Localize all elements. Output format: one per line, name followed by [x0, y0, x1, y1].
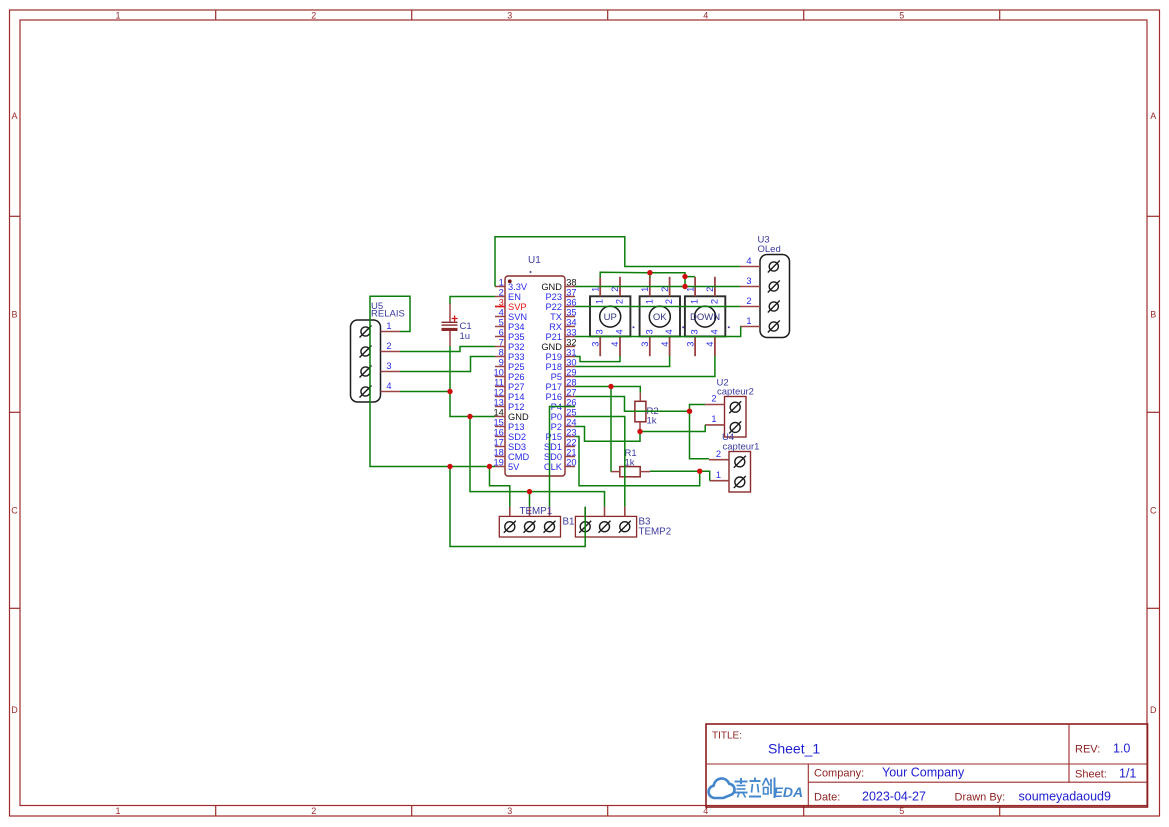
svg-text:4: 4	[386, 381, 391, 391]
svg-text:REV:: REV:	[1075, 744, 1100, 756]
wire net EN: U1 pin2 to C1 top	[450, 297, 495, 304]
svg-text:CLK: CLK	[544, 462, 563, 472]
row tick marks	[10, 216, 1160, 608]
wire net P22: U1 pin36 to U3 pin2	[575, 306, 740, 308]
svg-text:2: 2	[386, 341, 391, 351]
IC U1 body	[505, 276, 565, 476]
svg-text:GND: GND	[508, 412, 529, 422]
svg-text:2: 2	[610, 287, 620, 292]
wire branch P16 to U4 pin2	[690, 411, 710, 459]
svg-text:P21: P21	[545, 332, 562, 342]
svg-text:1: 1	[746, 316, 751, 326]
svg-text:TITLE:: TITLE:	[712, 731, 742, 742]
IC U1 pin-1 marker dot	[508, 279, 512, 283]
resistor R2 body	[635, 401, 646, 422]
wire branch P17 to R1 left	[610, 387, 612, 472]
svg-text:SD1: SD1	[544, 442, 562, 452]
svg-text:soumeyadaoud9: soumeyadaoud9	[1019, 790, 1111, 804]
svg-text:3: 3	[640, 342, 650, 347]
capacitor C1 plates	[442, 322, 458, 331]
wire net P2: U1 pin24 to R2 bottom	[575, 427, 640, 442]
svg-text:19: 19	[493, 457, 503, 467]
terminal block B3 body	[575, 516, 636, 537]
wire net P21: U1 pin33 to U3 pin1	[575, 327, 741, 337]
connector U3 body	[760, 255, 790, 338]
wire net P0: U1 pin25 to B3 pin3	[575, 417, 625, 507]
svg-text:2: 2	[705, 287, 715, 292]
svg-text:4: 4	[499, 307, 504, 317]
row labels left A-D	[11, 111, 18, 715]
push button DOWN pin stubs	[695, 277, 715, 356]
svg-text:P13: P13	[508, 422, 525, 432]
svg-text:5: 5	[499, 317, 504, 327]
svg-text:30: 30	[566, 357, 576, 367]
connector U5 pin numbers	[386, 321, 391, 391]
push button OK pin stubs	[650, 277, 670, 356]
svg-text:2: 2	[709, 299, 719, 304]
svg-text:P27: P27	[508, 382, 525, 392]
svg-text:B1: B1	[563, 517, 575, 528]
svg-text:P14: P14	[508, 392, 525, 402]
connector U3 pin numbers	[746, 256, 751, 326]
wire net P4: U1 pin26 to B1 pin3	[550, 407, 576, 507]
svg-text:14: 14	[493, 407, 503, 417]
svg-text:B: B	[1150, 310, 1156, 320]
push button UP pin stubs	[600, 277, 620, 356]
U1 left pin numbers and names	[493, 277, 529, 472]
push button UP pin names inside	[595, 299, 625, 335]
U1 right pin numbers and names	[541, 277, 576, 472]
push button UP body	[590, 296, 630, 336]
wire net P19: U1 pin31 to UP pin4	[575, 356, 620, 362]
wire net P5: U1 pin29 to DOWN pin4	[575, 356, 715, 377]
svg-text:1: 1	[499, 277, 504, 287]
svg-text:29: 29	[566, 367, 576, 377]
wire branch P16 to U2 pin2	[690, 405, 706, 412]
svg-text:2: 2	[664, 299, 674, 304]
svg-text:27: 27	[566, 387, 576, 397]
connector U4 pin numbers	[716, 449, 721, 480]
svg-text:1: 1	[644, 299, 654, 304]
title block outer border	[706, 724, 1148, 807]
svg-text:3.3V: 3.3V	[508, 282, 528, 292]
svg-text:2: 2	[716, 449, 721, 459]
svg-text:EN: EN	[508, 292, 521, 302]
svg-text:31: 31	[566, 347, 576, 357]
wire net P18: U1 pin30 to OK pin4	[575, 356, 670, 367]
IC U1 pin 3 red stub (SVP)	[495, 306, 505, 308]
push button OK pin numbers outside	[640, 287, 670, 347]
wire branch 5V to B1 pin1	[490, 467, 510, 507]
wire net P16: U1 pin27 to junction	[575, 397, 690, 412]
svg-text:3: 3	[644, 329, 654, 334]
svg-text:UP: UP	[604, 312, 617, 323]
svg-text:17: 17	[493, 437, 503, 447]
svg-text:P25: P25	[508, 362, 525, 372]
svg-text:SVP: SVP	[508, 302, 527, 312]
svg-text:24: 24	[566, 417, 576, 427]
svg-text:SD2: SD2	[508, 432, 526, 442]
column labels top 1-5	[115, 10, 904, 20]
svg-text:1: 1	[711, 414, 716, 424]
svg-text:1: 1	[716, 470, 721, 480]
svg-text:2: 2	[311, 10, 316, 20]
svg-text:25: 25	[566, 407, 576, 417]
svg-text:P15: P15	[545, 432, 562, 442]
svg-text:capteur2: capteur2	[717, 387, 754, 398]
svg-text:3: 3	[595, 329, 605, 334]
svg-text:CMD: CMD	[508, 452, 529, 462]
svg-text:4: 4	[660, 342, 670, 347]
svg-text:P26: P26	[508, 372, 525, 382]
svg-text:P0: P0	[551, 412, 562, 422]
svg-text:SD0: SD0	[544, 452, 562, 462]
svg-text:1k: 1k	[625, 457, 635, 468]
svg-text:2: 2	[615, 299, 625, 304]
svg-text:P23: P23	[545, 292, 562, 302]
svg-text:EDA: EDA	[774, 784, 804, 800]
svg-text:DOWN: DOWN	[690, 312, 720, 323]
svg-text:1u: 1u	[460, 331, 471, 342]
svg-text:28: 28	[566, 377, 576, 387]
wire branch buttons common to GND38	[685, 277, 695, 287]
svg-text:4: 4	[615, 329, 625, 334]
wire OK pin1 drop	[649, 273, 651, 278]
svg-text:A: A	[11, 111, 17, 121]
row labels right A-D	[1150, 111, 1157, 715]
svg-text:P17: P17	[545, 382, 562, 392]
svg-text:Your Company: Your Company	[882, 766, 965, 780]
svg-text:P35: P35	[508, 332, 525, 342]
svg-text:P5: P5	[551, 372, 562, 382]
svg-text:36: 36	[566, 297, 576, 307]
title block divider vertical logo	[807, 764, 809, 807]
connector U4 screw terminals	[734, 456, 746, 488]
svg-text:3: 3	[690, 329, 700, 334]
push button OK body	[640, 296, 680, 336]
svg-text:OLed: OLed	[758, 244, 781, 255]
svg-text:D: D	[1150, 705, 1157, 715]
svg-text:2023-04-27: 2023-04-27	[862, 790, 926, 804]
wire net GND38: U1 pin38 to U3 pin3	[575, 286, 740, 288]
svg-text:1: 1	[115, 10, 120, 20]
terminal block B1 screw terminals	[504, 521, 556, 533]
svg-text:8: 8	[499, 347, 504, 357]
svg-text:capteur1: capteur1	[723, 441, 760, 452]
svg-text:C: C	[1150, 506, 1157, 516]
svg-text:1: 1	[690, 299, 700, 304]
svg-text:1: 1	[115, 806, 120, 816]
terminal block B1 body	[499, 516, 560, 537]
svg-text:1: 1	[595, 299, 605, 304]
svg-text:P32: P32	[508, 342, 525, 352]
wire branch GND to B1 pin2	[529, 492, 531, 507]
push button UP pin numbers outside	[590, 287, 620, 347]
svg-text:RX: RX	[549, 322, 562, 332]
svg-text:P34: P34	[508, 322, 525, 332]
svg-text:7: 7	[499, 337, 504, 347]
svg-text:SVN: SVN	[508, 312, 527, 322]
svg-text:TEMP1: TEMP1	[520, 506, 553, 517]
svg-text:2: 2	[660, 287, 670, 292]
JLCEDA logo cloud and characters	[709, 778, 775, 799]
connector U2 pin stubs	[705, 405, 725, 425]
svg-text:P22: P22	[545, 302, 562, 312]
capacitor C1 plus sign	[452, 316, 458, 322]
title block divider vertical right	[1068, 724, 1070, 782]
wire branch P2 to U2 pin1	[640, 425, 705, 432]
svg-text:2: 2	[746, 296, 751, 306]
IC U1 pin stubs	[495, 287, 575, 467]
svg-text:1/1: 1/1	[1119, 767, 1136, 781]
svg-text:1.0: 1.0	[1113, 742, 1130, 756]
svg-text:4: 4	[709, 329, 719, 334]
title block divider horizontal 2	[808, 781, 1147, 783]
svg-text:5: 5	[899, 10, 904, 20]
svg-text:33: 33	[566, 327, 576, 337]
svg-text:37: 37	[566, 287, 576, 297]
svg-text:Company:: Company:	[814, 768, 864, 780]
svg-text:4: 4	[703, 10, 708, 20]
svg-text:2: 2	[711, 394, 716, 404]
svg-text:Drawn By:: Drawn By:	[955, 792, 1006, 804]
connector U2 screw terminals	[729, 401, 741, 433]
connector U3 screw terminals	[768, 261, 780, 333]
wire net GND: C1 bottom to U1 pin14	[450, 346, 495, 417]
connector U4 pin stubs	[709, 460, 729, 481]
wire branch GND to U5 pin4	[400, 391, 450, 393]
svg-text:1: 1	[640, 287, 650, 292]
svg-text:20: 20	[566, 457, 576, 467]
wire branch GND down to B3 pin2	[470, 417, 605, 507]
svg-text:11: 11	[494, 377, 504, 387]
push button DOWN pin numbers outside	[685, 287, 715, 347]
svg-text:1: 1	[590, 287, 600, 292]
svg-text:3: 3	[590, 342, 600, 347]
svg-text:21: 21	[566, 447, 576, 457]
svg-text:13: 13	[493, 397, 503, 407]
svg-text:C: C	[11, 506, 18, 516]
wire U5 pin3 to U1 pin8 P33	[400, 357, 495, 372]
svg-text:P16: P16	[545, 392, 562, 402]
push button DOWN circle	[695, 306, 716, 327]
svg-text:1k: 1k	[647, 416, 657, 427]
svg-text:5V: 5V	[508, 462, 520, 472]
column tick marks	[216, 10, 1000, 816]
svg-text:3: 3	[507, 10, 512, 20]
svg-text:P2: P2	[551, 422, 562, 432]
resistor R2 leads	[639, 392, 641, 432]
svg-text:P19: P19	[545, 352, 562, 362]
svg-text:SD3: SD3	[508, 442, 526, 452]
svg-text:16: 16	[493, 427, 503, 437]
svg-text:9: 9	[499, 357, 504, 367]
svg-text:3: 3	[386, 361, 391, 371]
svg-text:RELAIS: RELAIS	[371, 309, 405, 320]
svg-text:2: 2	[311, 806, 316, 816]
svg-text:Sheet_1: Sheet_1	[768, 741, 820, 757]
svg-text:4: 4	[610, 342, 620, 347]
svg-text:3: 3	[507, 806, 512, 816]
svg-text:TEMP2: TEMP2	[639, 526, 672, 537]
svg-text:18: 18	[493, 447, 503, 457]
connector U2 body	[725, 397, 747, 438]
svg-text:U1: U1	[528, 255, 541, 266]
svg-text:4: 4	[705, 342, 715, 347]
terminal block B3 screw terminals	[579, 521, 631, 533]
resistor R1 leads	[611, 471, 650, 473]
svg-text:35: 35	[566, 307, 576, 317]
junction dots	[447, 270, 702, 494]
wire branch 5V to B3 pin1	[450, 467, 585, 547]
svg-text:D: D	[11, 705, 18, 715]
title block divider horizontal 1	[706, 763, 1148, 765]
svg-text:B: B	[11, 310, 17, 320]
svg-text:23: 23	[566, 427, 576, 437]
svg-text:Sheet:: Sheet:	[1075, 769, 1107, 781]
wire net 3.3V: U1 pin1 to U3 pin4	[495, 237, 740, 287]
wire net 5V: U1 pin19 to U5 pin1 loop	[370, 296, 495, 466]
capacitor C1 leads	[449, 303, 451, 346]
svg-text:OK: OK	[653, 312, 667, 323]
connector U5 body	[351, 320, 381, 402]
svg-text:1: 1	[386, 321, 391, 331]
push button DOWN pin names inside	[690, 299, 720, 335]
hidden value dots of buttons	[633, 326, 730, 328]
connector U5 screw terminals	[360, 326, 372, 398]
connector U4 body	[729, 452, 751, 493]
svg-text:6: 6	[499, 327, 504, 337]
svg-text:22: 22	[566, 437, 576, 447]
svg-text:2: 2	[499, 287, 504, 297]
svg-text:TX: TX	[550, 312, 562, 322]
svg-text:32: 32	[566, 337, 576, 347]
terminal block B3 pin stubs	[585, 507, 625, 517]
wire net P15: U1 pin23 to junction	[575, 437, 700, 486]
wire R1 right to U4 pin1	[650, 471, 710, 481]
svg-text:4: 4	[664, 329, 674, 334]
wire buttons pin1 row	[600, 272, 685, 277]
push button OK pin names inside	[644, 299, 674, 335]
svg-text:4: 4	[746, 256, 751, 266]
wire net P17: U1 pin28 to R2 top	[575, 387, 640, 393]
push button UP circle	[600, 306, 621, 327]
svg-text:38: 38	[566, 277, 576, 287]
svg-text:3: 3	[499, 297, 504, 307]
svg-text:P33: P33	[508, 352, 525, 362]
svg-text:P18: P18	[545, 362, 562, 372]
terminal block B1 pin stubs	[510, 507, 550, 517]
wire U5 pin2 to U1 pin7 P32	[400, 347, 495, 352]
svg-text:P12: P12	[508, 402, 525, 412]
column labels bottom 1-5	[115, 806, 904, 816]
U1 hidden value dot	[530, 271, 532, 273]
svg-text:GND: GND	[541, 342, 562, 352]
connector U5 pin stubs	[381, 332, 401, 392]
svg-text:A: A	[1150, 111, 1156, 121]
svg-text:GND: GND	[541, 282, 562, 292]
svg-text:12: 12	[493, 387, 503, 397]
resistor R1 body	[620, 467, 640, 477]
connector U2 pin numbers	[711, 394, 716, 424]
push button DOWN body	[685, 296, 725, 336]
svg-text:15: 15	[493, 417, 503, 427]
svg-text:10: 10	[493, 367, 503, 377]
connector U3 pin stubs	[740, 267, 760, 327]
svg-text:3: 3	[685, 342, 695, 347]
svg-text:34: 34	[566, 317, 576, 327]
svg-text:3: 3	[746, 276, 751, 286]
svg-text:Date:: Date:	[814, 792, 840, 804]
push button OK circle	[649, 306, 670, 327]
